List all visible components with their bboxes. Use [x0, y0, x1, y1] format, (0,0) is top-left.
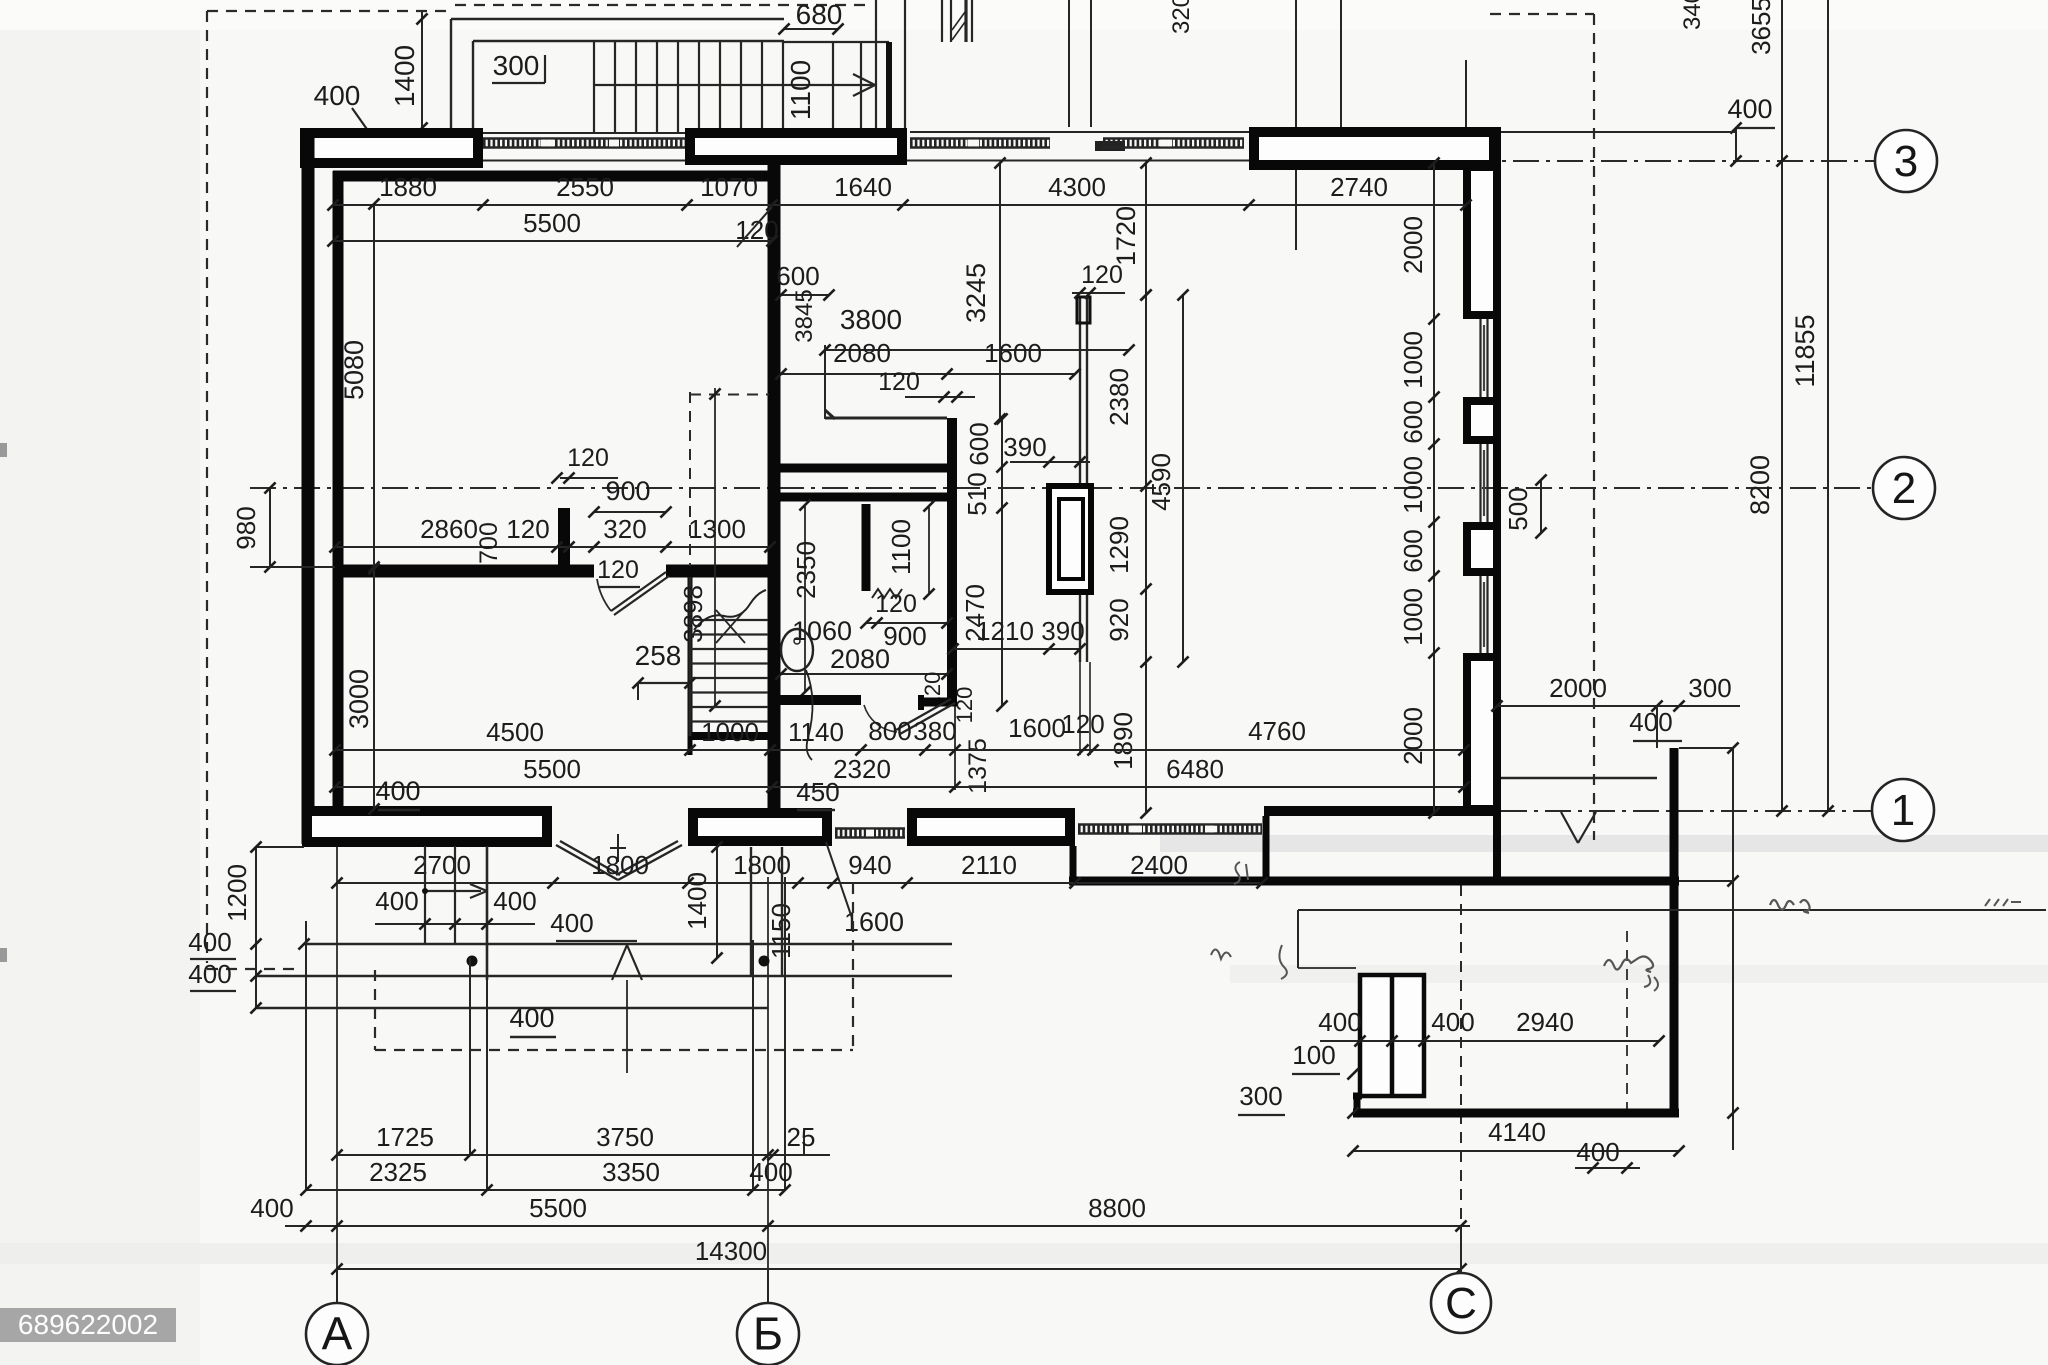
svg-text:3898: 3898	[678, 585, 708, 643]
svg-text:14300: 14300	[695, 1236, 767, 1266]
svg-text:120: 120	[878, 368, 920, 396]
svg-text:3245: 3245	[961, 263, 991, 323]
svg-text:1725: 1725	[376, 1122, 434, 1152]
svg-text:3000: 3000	[344, 669, 374, 729]
svg-text:1200: 1200	[222, 864, 252, 922]
svg-text:4500: 4500	[486, 717, 544, 747]
svg-text:400: 400	[250, 1193, 293, 1223]
svg-text:400: 400	[1318, 1007, 1361, 1037]
svg-text:1060: 1060	[792, 616, 852, 646]
svg-text:3800: 3800	[840, 304, 902, 335]
svg-text:120: 120	[1081, 261, 1123, 289]
svg-text:400: 400	[749, 1157, 792, 1187]
svg-text:400: 400	[188, 959, 231, 989]
svg-text:510: 510	[962, 472, 992, 515]
svg-text:2: 2	[1892, 464, 1916, 513]
svg-text:1210: 1210	[976, 616, 1034, 646]
svg-text:1640: 1640	[834, 172, 892, 202]
svg-text:380: 380	[913, 716, 956, 746]
svg-text:4590: 4590	[1146, 453, 1176, 511]
svg-text:3350: 3350	[602, 1157, 660, 1187]
svg-text:А: А	[322, 1308, 353, 1360]
svg-text:25: 25	[787, 1122, 816, 1152]
svg-text:400: 400	[375, 886, 418, 916]
svg-text:400: 400	[493, 886, 536, 916]
svg-text:2740: 2740	[1330, 172, 1388, 202]
svg-text:1000: 1000	[1398, 331, 1428, 389]
svg-text:5500: 5500	[529, 1193, 587, 1223]
svg-text:3750: 3750	[596, 1122, 654, 1152]
svg-text:1000: 1000	[1398, 456, 1428, 514]
svg-text:258: 258	[635, 640, 682, 671]
svg-text:500: 500	[1503, 487, 1533, 530]
svg-text:450: 450	[796, 777, 839, 807]
svg-text:С: С	[1445, 1279, 1477, 1328]
svg-text:900: 900	[605, 476, 650, 506]
svg-text:2860: 2860	[420, 514, 478, 544]
svg-text:300: 300	[1688, 673, 1731, 703]
svg-text:1100: 1100	[785, 60, 816, 120]
svg-text:5500: 5500	[523, 754, 581, 784]
svg-text:1720: 1720	[1111, 206, 1141, 266]
svg-text:120: 120	[506, 514, 549, 544]
svg-text:1400: 1400	[389, 45, 420, 107]
svg-text:4300: 4300	[1048, 172, 1106, 202]
svg-text:2940: 2940	[1516, 1007, 1574, 1037]
svg-text:3655: 3655	[1746, 0, 1776, 55]
svg-text:1400: 1400	[682, 872, 712, 930]
svg-text:800: 800	[868, 716, 911, 746]
svg-text:320: 320	[1168, 0, 1195, 34]
svg-text:400: 400	[509, 1003, 554, 1033]
svg-text:400: 400	[314, 80, 361, 111]
svg-text:400: 400	[550, 908, 593, 938]
svg-text:120: 120	[567, 444, 609, 472]
svg-text:1290: 1290	[1104, 516, 1134, 574]
svg-text:1600: 1600	[1008, 713, 1066, 743]
svg-text:2325: 2325	[369, 1157, 427, 1187]
svg-text:3845: 3845	[791, 289, 818, 342]
svg-text:2000: 2000	[1398, 216, 1428, 274]
svg-text:Б: Б	[753, 1308, 783, 1360]
svg-text:1890: 1890	[1108, 712, 1138, 770]
svg-text:8200: 8200	[1745, 455, 1775, 515]
svg-text:2350: 2350	[791, 541, 821, 599]
svg-text:390: 390	[1041, 616, 1084, 646]
svg-text:680: 680	[796, 0, 843, 30]
svg-text:1: 1	[1891, 786, 1915, 835]
svg-text:1300: 1300	[688, 514, 746, 544]
svg-text:920: 920	[1104, 598, 1134, 641]
svg-text:1880: 1880	[379, 172, 437, 202]
svg-text:1375: 1375	[964, 738, 992, 794]
svg-text:120: 120	[597, 556, 639, 584]
svg-text:400: 400	[1431, 1007, 1474, 1037]
svg-text:1600: 1600	[984, 338, 1042, 368]
svg-text:11855: 11855	[1790, 314, 1820, 387]
svg-text:1000: 1000	[1398, 588, 1428, 646]
svg-text:400: 400	[1629, 707, 1672, 737]
svg-text:940: 940	[848, 850, 891, 880]
svg-text:8800: 8800	[1088, 1193, 1146, 1223]
svg-text:2000: 2000	[1398, 707, 1428, 765]
svg-text:600: 600	[1398, 529, 1428, 572]
svg-text:600: 600	[964, 422, 994, 465]
svg-text:100: 100	[1292, 1040, 1335, 1070]
svg-text:2080: 2080	[833, 338, 891, 368]
svg-text:689622002: 689622002	[18, 1309, 158, 1340]
svg-text:600: 600	[776, 261, 819, 291]
svg-text:1000: 1000	[701, 717, 759, 747]
svg-text:5500: 5500	[523, 208, 581, 238]
svg-text:390: 390	[1003, 432, 1046, 462]
svg-text:4140: 4140	[1488, 1117, 1546, 1147]
svg-text:1070: 1070	[700, 172, 758, 202]
svg-text:980: 980	[231, 506, 261, 549]
svg-text:340: 340	[1679, 0, 1706, 30]
svg-text:2550: 2550	[556, 172, 614, 202]
svg-text:400: 400	[1727, 94, 1772, 124]
svg-text:2380: 2380	[1104, 368, 1134, 426]
svg-text:2110: 2110	[961, 850, 1017, 880]
svg-text:1800: 1800	[591, 850, 649, 880]
svg-text:4760: 4760	[1248, 716, 1306, 746]
svg-text:300: 300	[493, 50, 540, 81]
svg-text:2400: 2400	[1130, 850, 1188, 880]
svg-text:400: 400	[188, 927, 231, 957]
svg-text:5080: 5080	[339, 340, 369, 400]
svg-text:2000: 2000	[1549, 673, 1607, 703]
svg-text:6480: 6480	[1166, 754, 1224, 784]
svg-text:3: 3	[1894, 137, 1918, 186]
svg-text:2320: 2320	[833, 754, 891, 784]
svg-text:700: 700	[475, 522, 503, 564]
svg-text:400: 400	[375, 776, 420, 806]
svg-text:320: 320	[603, 514, 646, 544]
svg-text:2080: 2080	[830, 644, 890, 674]
svg-text:600: 600	[1398, 400, 1428, 443]
svg-text:1100: 1100	[886, 519, 916, 575]
svg-text:1140: 1140	[788, 717, 844, 747]
svg-text:300: 300	[1239, 1081, 1282, 1111]
svg-text:2700: 2700	[413, 850, 471, 880]
svg-text:120: 120	[1061, 709, 1104, 739]
